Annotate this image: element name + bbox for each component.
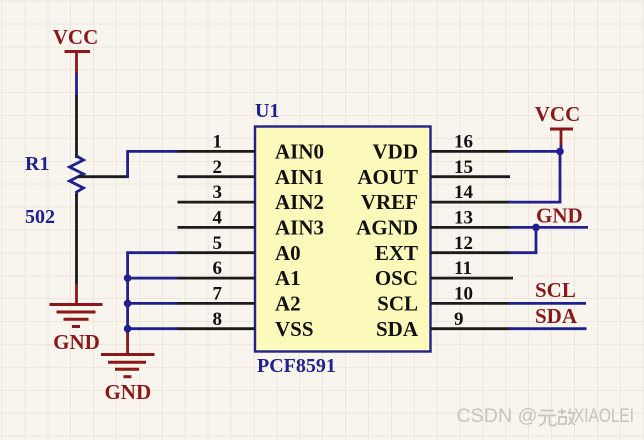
svg-text:8: 8 xyxy=(213,309,223,330)
svg-text:VCC: VCC xyxy=(535,102,581,126)
pin 12 stub xyxy=(431,251,511,254)
pin 6 stub xyxy=(178,277,256,280)
svg-text:OSC: OSC xyxy=(375,266,418,290)
wire bus to ground (red) xyxy=(126,333,129,355)
svg-text:15: 15 xyxy=(454,157,473,178)
pin 13 stub xyxy=(431,226,511,229)
svg-text:VREF: VREF xyxy=(361,190,418,214)
svg-text:VCC: VCC xyxy=(53,25,99,49)
svg-text:SCL: SCL xyxy=(377,292,418,316)
svg-text:U1: U1 xyxy=(255,100,279,122)
power port VCC (right) xyxy=(535,102,581,146)
pin 11 stub xyxy=(431,277,514,280)
svg-text:5: 5 xyxy=(213,233,223,254)
svg-text:GND: GND xyxy=(104,380,151,404)
junction dot GND xyxy=(532,224,540,232)
pin 16 stub xyxy=(431,150,511,153)
svg-text:4: 4 xyxy=(213,208,223,229)
svg-text:PCF8591: PCF8591 xyxy=(257,355,336,377)
wire R1 tap to pin 1 (black horizontal, navy bend) xyxy=(78,150,179,178)
pin 15 stub xyxy=(431,175,511,178)
pin 9 stub xyxy=(431,327,511,330)
wire GND down to EXT pin 12 (navy) xyxy=(509,227,538,252)
svg-text:3: 3 xyxy=(213,182,223,203)
svg-text:10: 10 xyxy=(454,284,473,305)
wire to pin 8 VSS xyxy=(128,327,179,330)
pin 5 stub xyxy=(178,251,256,254)
svg-text:AIN1: AIN1 xyxy=(275,165,324,189)
svg-text:AOUT: AOUT xyxy=(357,165,418,189)
op-amp/IC body U1 PCF8591 xyxy=(255,127,431,352)
svg-text:14: 14 xyxy=(454,182,474,203)
pin 14 stub xyxy=(431,201,511,204)
wire to pin 6 A1 xyxy=(128,277,179,280)
svg-text:9: 9 xyxy=(454,309,464,330)
bus wire A0/A1/A2/VSS to GND (navy vertical) xyxy=(126,253,129,335)
svg-text:R1: R1 xyxy=(25,153,49,175)
svg-text:7: 7 xyxy=(213,284,223,305)
svg-text:2: 2 xyxy=(213,157,223,178)
watermark chinese char wu xyxy=(538,411,557,427)
svg-text:SDA: SDA xyxy=(535,304,578,328)
wire to pin 7 A2 xyxy=(128,302,179,305)
wire VCC down to VREF pin 14 (navy) xyxy=(509,151,562,202)
junction dot pin 7 xyxy=(124,300,132,308)
pin 2 stub xyxy=(178,175,256,178)
junction dot VDD/VCC xyxy=(556,148,564,156)
pin 4 stub xyxy=(178,226,256,229)
ground symbol (bottom middle, under bus) xyxy=(101,355,155,405)
svg-text:SDA: SDA xyxy=(376,317,419,341)
svg-text:11: 11 xyxy=(454,258,472,279)
resistor R1 zigzag xyxy=(70,156,84,196)
svg-text:A2: A2 xyxy=(275,292,301,316)
watermark chinese char di xyxy=(558,409,576,426)
svg-text:GND: GND xyxy=(53,330,100,354)
svg-text:XIAOLEI: XIAOLEI xyxy=(574,406,634,427)
pin 1 stub xyxy=(178,150,256,153)
svg-text:AIN2: AIN2 xyxy=(275,190,324,214)
ground symbol (left, under R1) xyxy=(50,305,103,355)
wire to pin 5 A0 xyxy=(126,251,178,254)
svg-text:EXT: EXT xyxy=(375,241,418,265)
svg-text:12: 12 xyxy=(454,233,473,254)
pin 8 stub xyxy=(178,327,256,330)
junction dot pin 8 xyxy=(124,325,132,333)
wire AGND pin 13 to GND net (navy) xyxy=(509,226,589,229)
pin 3 stub xyxy=(178,201,256,204)
pin 10 stub xyxy=(431,302,511,305)
svg-text:CSDN @: CSDN @ xyxy=(457,406,538,427)
svg-text:502: 502 xyxy=(25,206,55,228)
svg-text:13: 13 xyxy=(454,208,473,229)
pin 7 stub xyxy=(178,302,256,305)
svg-text:A1: A1 xyxy=(275,266,301,290)
svg-text:6: 6 xyxy=(213,258,223,279)
wire VCC to VDD pin 16 (navy) xyxy=(509,145,562,152)
svg-text:AIN0: AIN0 xyxy=(275,140,324,164)
svg-text:A0: A0 xyxy=(275,241,301,265)
svg-text:SCL: SCL xyxy=(535,278,576,302)
wire VCC to R1 (navy then black) xyxy=(75,73,78,158)
svg-text:1: 1 xyxy=(213,132,223,153)
svg-text:AGND: AGND xyxy=(356,216,418,240)
svg-text:16: 16 xyxy=(454,132,473,153)
wire SCL (navy) xyxy=(509,302,587,305)
svg-text:AIN3: AIN3 xyxy=(275,216,324,240)
junction dot pin 6 xyxy=(124,274,132,282)
wire SDA (navy) xyxy=(509,327,587,330)
svg-text:VSS: VSS xyxy=(275,317,314,341)
wire R1 bottom to GND (black then red) xyxy=(75,194,78,305)
power port VCC (top-left) xyxy=(53,25,99,74)
svg-text:VDD: VDD xyxy=(373,140,419,164)
svg-text:GND: GND xyxy=(536,204,583,228)
